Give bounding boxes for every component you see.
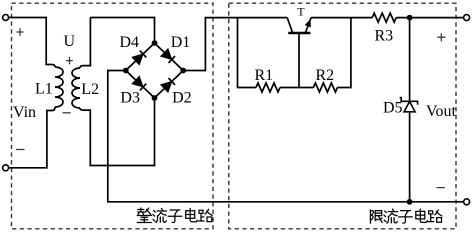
- svg-text:D4: D4: [120, 34, 140, 51]
- svg-text:D3: D3: [120, 89, 140, 106]
- svg-text:T: T: [297, 5, 305, 19]
- svg-text:R1: R1: [255, 67, 274, 84]
- svg-text:D2: D2: [172, 89, 192, 106]
- svg-text:Vout: Vout: [426, 103, 456, 120]
- svg-text:D1: D1: [171, 34, 191, 51]
- svg-text:L2: L2: [81, 81, 99, 98]
- svg-text:U: U: [64, 33, 76, 50]
- svg-text:Vin: Vin: [13, 104, 36, 121]
- svg-text:D5: D5: [383, 100, 403, 117]
- svg-text:R2: R2: [316, 67, 335, 84]
- svg-text:R3: R3: [375, 28, 394, 45]
- svg-text:L1: L1: [35, 81, 53, 98]
